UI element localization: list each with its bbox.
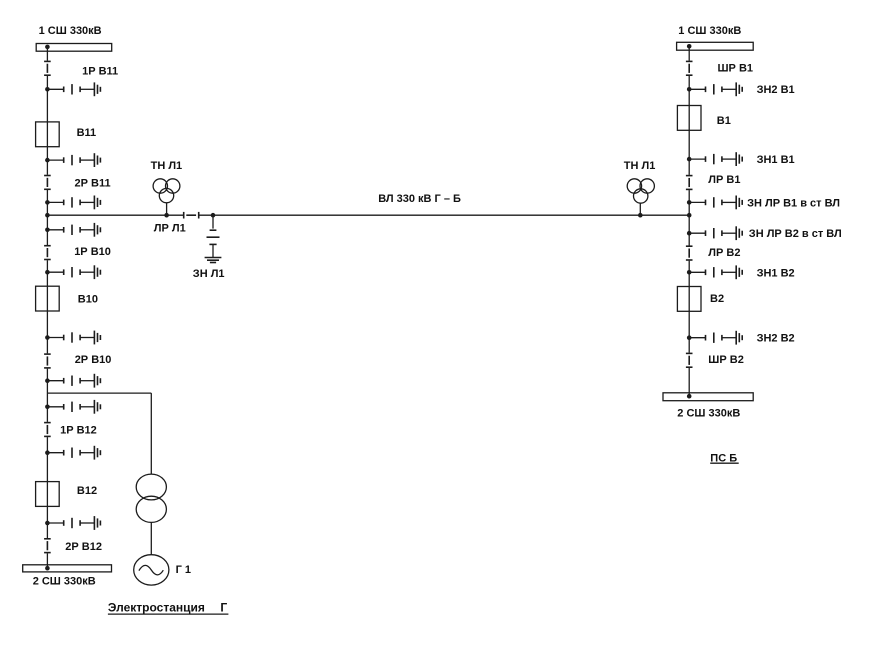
svg-text:ТН Л1: ТН Л1 — [624, 160, 656, 172]
svg-text:ЛР В2: ЛР В2 — [708, 247, 740, 259]
svg-text:ЗН Л1: ЗН Л1 — [193, 268, 225, 280]
svg-text:ЗН1 В2: ЗН1 В2 — [757, 267, 795, 279]
svg-text:ЗН1 В1: ЗН1 В1 — [757, 154, 795, 166]
svg-text:В12: В12 — [77, 485, 97, 497]
svg-text:ЛР В1: ЛР В1 — [708, 174, 740, 186]
svg-text:1Р В11: 1Р В11 — [82, 66, 118, 78]
svg-text:Электростанция: Электростанция — [108, 601, 205, 615]
svg-text:ЗН ЛР В1 в ст ВЛ: ЗН ЛР В1 в ст ВЛ — [747, 198, 840, 210]
svg-text:Г: Г — [220, 601, 227, 615]
svg-text:ЗН2 В1: ЗН2 В1 — [757, 84, 795, 96]
svg-text:2Р В10: 2Р В10 — [75, 354, 112, 366]
svg-text:2Р В11: 2Р В11 — [75, 177, 111, 189]
svg-text:В11: В11 — [77, 127, 97, 139]
svg-text:2 СШ 330кВ: 2 СШ 330кВ — [677, 408, 740, 420]
svg-text:ТН Л1: ТН Л1 — [151, 160, 183, 172]
svg-text:ШР В2: ШР В2 — [708, 354, 744, 366]
svg-text:В10: В10 — [78, 293, 98, 305]
svg-text:В2: В2 — [710, 293, 724, 305]
svg-text:ВЛ 330 кВ Г – Б: ВЛ 330 кВ Г – Б — [378, 193, 461, 205]
svg-text:1Р В10: 1Р В10 — [74, 246, 111, 258]
svg-text:2 СШ 330кВ: 2 СШ 330кВ — [33, 576, 96, 588]
svg-text:1 СШ 330кВ: 1 СШ 330кВ — [39, 25, 102, 37]
svg-text:В1: В1 — [717, 115, 731, 127]
svg-text:ЗН2 В2: ЗН2 В2 — [757, 333, 795, 345]
svg-text:2Р В12: 2Р В12 — [65, 541, 102, 553]
svg-text:1Р В12: 1Р В12 — [60, 425, 97, 437]
svg-text:ЗН ЛР В2 в ст ВЛ: ЗН ЛР В2 в ст ВЛ — [749, 228, 842, 240]
svg-text:ШР В1: ШР В1 — [718, 63, 754, 75]
svg-text:ЛР Л1: ЛР Л1 — [154, 222, 186, 234]
svg-text:Г 1: Г 1 — [176, 564, 191, 576]
svg-text:1 СШ 330кВ: 1 СШ 330кВ — [678, 25, 741, 37]
